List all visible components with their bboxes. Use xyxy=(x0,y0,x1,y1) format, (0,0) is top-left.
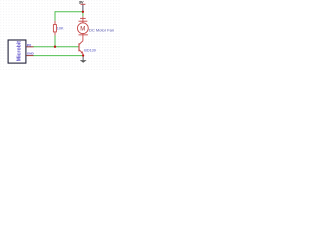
svg-text:DC Motor Fan: DC Motor Fan xyxy=(89,28,114,33)
wire: resistor bottom to P0 net junction xyxy=(54,35,56,46)
label: emitter arrowhead xyxy=(81,51,83,53)
wire: top horizontal net from resistor top to 3V junction xyxy=(55,11,82,13)
svg-text:GND: GND xyxy=(27,51,35,55)
resistor R1 10K xyxy=(53,21,56,36)
svg-text:M: M xyxy=(80,26,85,32)
svg-text:Microbit: Microbit xyxy=(17,41,23,61)
node: junction of 3V, top wire and motor xyxy=(82,11,84,13)
power terminal 3V xyxy=(79,0,86,11)
node: junction of emitter, GND wire and ground xyxy=(82,54,84,56)
svg-text:P0: P0 xyxy=(27,44,31,48)
transistor Q1 BD139 (NPN) xyxy=(79,41,83,55)
svg-text:BD139: BD139 xyxy=(84,49,96,53)
pin GND xyxy=(26,55,33,57)
wire: P0 horizontal net from microbit pin to transistor base xyxy=(33,46,79,48)
svg-text:3V: 3V xyxy=(79,0,84,5)
motor M1 (DC motor) xyxy=(77,16,88,41)
wire: left vertical from top wire down to resistor xyxy=(54,11,56,20)
ground xyxy=(80,57,87,63)
microcontroller U1 Microbit box xyxy=(8,40,26,63)
node: junction of resistor and P0 wire xyxy=(54,46,56,48)
svg-text:10K: 10K xyxy=(57,26,64,30)
pin P0 xyxy=(26,46,33,48)
wire: 3V junction down to motor pin xyxy=(82,12,84,16)
wire: GND horizontal net from microbit pin to ground junction xyxy=(33,55,82,57)
